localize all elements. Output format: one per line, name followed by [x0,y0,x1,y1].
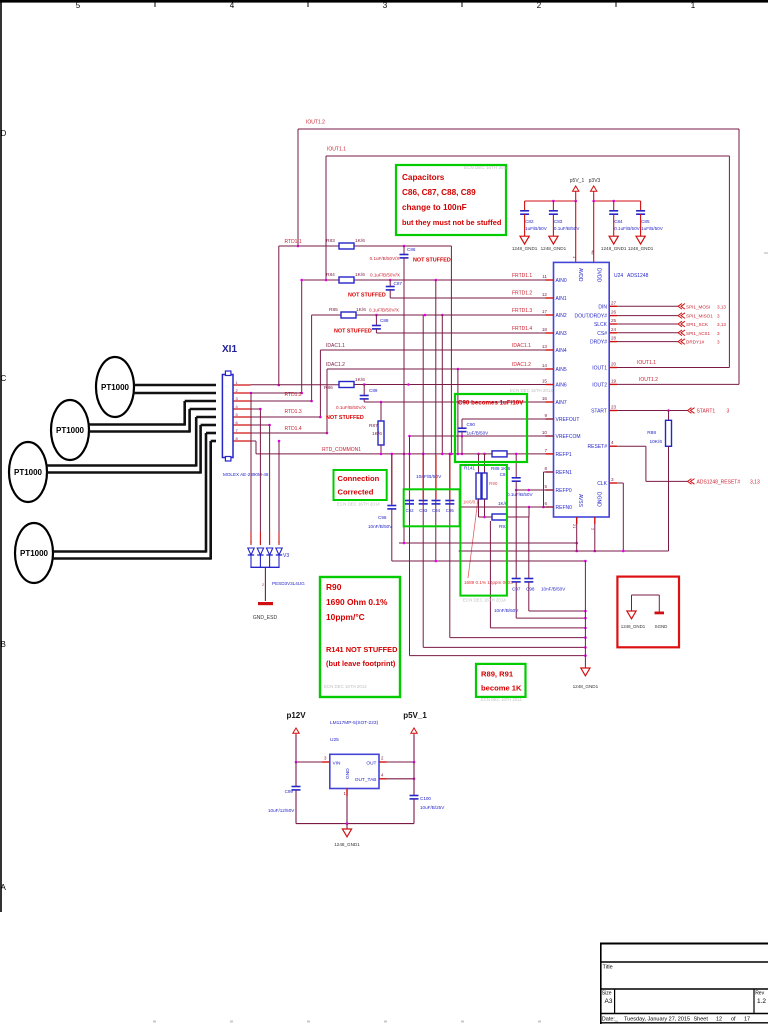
resistor R85 [329,307,399,318]
svg-text:1: 1 [344,791,347,796]
wire net IDAC1.1 [319,350,553,418]
svg-text:C84: C84 [614,219,623,224]
svg-text:25: 25 [611,318,617,323]
svg-text:NOT STUFFED: NOT STUFFED [326,415,364,421]
svg-text:1: 1 [278,540,280,544]
wire net DRDY1# [617,339,720,345]
wire net SPI1_nCS1 [617,330,720,336]
svg-text:R83: R83 [326,238,335,244]
wire net AIN6 row through R86 [251,383,554,386]
svg-text:C: C [1,374,7,383]
regulator pin 1 GND [344,789,348,824]
svg-text:START: START [591,409,607,415]
IC pin 25 SLCK [594,318,617,328]
svg-text:C100: C100 [420,796,431,801]
svg-text:DVDD: DVDD [596,268,602,283]
power p5V_1 top [570,178,585,201]
svg-text:ECN DEC 16TH 2014: ECN DEC 16TH 2014 [510,388,553,393]
svg-text:10: 10 [542,430,548,435]
svg-text:1689 0.1% 10ppm 0603: 1689 0.1% 10ppm 0603 [464,580,513,585]
svg-text:AIN7: AIN7 [556,400,567,406]
label R90 value red [463,499,479,578]
svg-text:10nF/B/50V: 10nF/B/50V [541,587,566,592]
svg-text:3,13: 3,13 [750,480,760,486]
svg-text:5: 5 [544,484,547,489]
svg-text:0.1uF/B/50V/X: 0.1uF/B/50V/X [370,256,400,261]
ground 1248_GND1 under C84 [601,236,627,251]
svg-text:10nF/B/50V: 10nF/B/50V [368,524,393,529]
svg-text:REFP1: REFP1 [556,452,572,458]
svg-text:1248_GND1: 1248_GND1 [628,246,654,251]
resistor R89 [477,451,510,471]
svg-text:GND: GND [345,768,351,779]
svg-text:ECN DEC 16TH 2014: ECN DEC 16TH 2014 [324,684,367,689]
svg-text:C83: C83 [554,219,563,224]
connector pin 8 [233,436,251,441]
svg-text:3: 3 [717,340,720,345]
wire verticals C92 C93 C95 [410,315,450,656]
svg-text:SPI1_nCS1: SPI1_nCS1 [686,331,710,336]
label AVDD pin [572,256,583,282]
capacitor C95 [445,501,454,514]
svg-text:DOUT/DRDY#: DOUT/DRDY# [574,314,607,320]
svg-text:IDAC1.2: IDAC1.2 [512,362,531,368]
svg-text:8: 8 [236,436,239,441]
wire net REFP0 row [516,489,553,492]
IC pin 19 IOUT2 [592,378,617,388]
ground 1248_GND1 under C83 [541,236,567,251]
wire net FRTD1.1 row [300,279,553,395]
wire net SPI1_SCK [617,321,726,327]
svg-text:0.1uF/B/50V: 0.1uF/B/50V [614,226,640,231]
wire vertical 460 to bus [459,507,461,551]
wire net VREFOUT row [462,418,554,420]
op-amp U1 : IC U24 ADS1248 body [554,262,610,517]
svg-text:C96: C96 [378,515,387,520]
IC pin 5 REFP0 [544,484,571,494]
svg-text:5: 5 [236,412,239,417]
svg-text:AIN0: AIN0 [556,278,567,284]
svg-text:C85: C85 [641,219,650,224]
wire net RTD1.2 row [251,392,302,394]
svg-text:R85: R85 [329,307,338,313]
svg-text:19: 19 [611,378,617,383]
svg-text:1: 1 [691,1,696,10]
capacitor C92 [405,501,414,514]
svg-text:1248_GND1: 1248_GND1 [573,684,599,689]
svg-text:Capacitors: Capacitors [402,173,445,182]
svg-text:V3: V3 [283,553,289,559]
IC pin 18 AIN3 [542,327,567,337]
ground GND_ESD [253,602,278,621]
svg-text:1248_GND1: 1248_GND1 [541,246,567,251]
wire R88 to bus [668,446,670,551]
sensor PT1000 #3 [9,442,47,502]
svg-text:PT1000: PT1000 [56,426,85,435]
wire net VREFCOM row [408,435,553,438]
svg-text:1K/6: 1K/6 [356,307,366,313]
svg-text:IOUT1: IOUT1 [592,366,607,372]
svg-text:14: 14 [542,363,548,368]
svg-text:DRDY1#: DRDY1# [686,340,705,345]
wire p3V3 rail [592,200,640,263]
connector XI1 body [222,371,233,461]
wire C90 branch down [461,436,463,454]
wire vertical from IDAC1.2 row [457,369,460,455]
svg-text:26: 26 [611,310,617,315]
svg-text:p5V_1: p5V_1 [403,711,427,720]
note box R90 tall [460,465,507,596]
capacitor C99 [268,762,301,824]
IC pin 12 AIN1 [542,292,567,302]
IC pin 3 CLK [597,477,617,487]
svg-text:OUT_TAB: OUT_TAB [355,777,377,783]
svg-text:3: 3 [324,756,327,761]
svg-text:A: A [1,883,7,892]
connector pin 5 [233,412,251,417]
svg-text:AIN4: AIN4 [556,348,567,354]
svg-text:10uF/B/25V: 10uF/B/25V [420,805,445,810]
wire net AIN7 row [364,401,553,404]
power p5V_1 bottom [403,711,427,762]
IC pin 14 AIN5 [542,363,567,373]
resistor R88 [647,411,671,447]
ground 1248_GND1 under C82 [512,236,538,251]
capacitor C83 [549,201,580,236]
svg-text:23: 23 [611,405,617,410]
IC pin 24 CS# [597,327,617,337]
ground 1248_GND1 bottom [573,668,599,689]
svg-text:RTD_COMMON1: RTD_COMMON1 [322,447,361,453]
svg-text:4: 4 [381,772,384,777]
svg-text:1: 1 [250,540,252,544]
wire stair y638 [450,636,587,639]
connector pin 6 [233,420,251,425]
svg-text:RESET#: RESET# [588,444,608,450]
svg-text:PT1000: PT1000 [101,383,130,392]
svg-text:1K/6: 1K/6 [355,377,365,383]
svg-text:SPI1_MOSI: SPI1_MOSI [686,304,710,309]
svg-text:NOT STUFFED: NOT STUFFED [334,329,372,335]
regulator pin 2 [379,756,415,764]
svg-text:6: 6 [236,420,239,425]
svg-text:3: 3 [383,1,388,10]
svg-text:but they must not be stuffed: but they must not be stuffed [402,218,502,227]
svg-text:5: 5 [76,1,81,10]
regulator pin 3 [295,756,330,764]
svg-text:IOUT1.1: IOUT1.1 [327,147,346,153]
wire vertical from R83 row [450,246,453,455]
connector pin 2 [233,388,251,393]
svg-text:C86: C86 [407,247,416,252]
connector pin 1 [233,380,251,385]
svg-text:1K/6: 1K/6 [355,238,365,244]
svg-text:R90: R90 [489,481,498,486]
svg-text:27: 27 [611,300,617,305]
svg-text:change to 100nF: change to 100nF [402,203,467,212]
svg-text:0.1uF/B/50V/X: 0.1uF/B/50V/X [370,273,400,278]
wire stair y656 [410,654,587,657]
label AVSS pin [572,494,583,529]
wire ground drop [584,561,586,668]
resistor R141 [476,454,481,499]
svg-text:1: 1 [269,540,271,544]
svg-text:IOUT2: IOUT2 [592,382,607,388]
svg-text:10ppm/°C: 10ppm/°C [326,612,365,622]
capacitor C82 [520,201,548,236]
svg-text:4: 4 [236,404,239,409]
wire net IDAC1.2 [326,368,554,435]
note box Capacitors C86-C89 [396,165,506,235]
wire net ADS1248_RESET# [617,446,760,485]
svg-text:U25: U25 [330,737,339,743]
svg-text:SPI1_MISO1: SPI1_MISO1 [686,314,713,319]
svg-text:DIN: DIN [598,304,607,310]
svg-text:0.1uF/B/50V: 0.1uF/B/50V [507,492,533,497]
svg-text:of: of [731,1017,736,1023]
svg-text:R84: R84 [326,272,335,278]
svg-text:become 1K: become 1K [481,684,522,693]
svg-text:1248_GND1: 1248_GND1 [621,624,646,629]
svg-text:VREFOUT: VREFOUT [556,417,580,423]
svg-text:6: 6 [544,501,547,506]
svg-text:IDAC1.1: IDAC1.1 [512,343,531,349]
svg-text:Sheet: Sheet [694,1017,709,1023]
capacitor C90 [458,419,490,436]
wire vertical from R85 row [441,315,444,455]
ground equivalence red box [617,577,679,648]
svg-text:Tuesday, January 27, 2015: Tuesday, January 27, 2015 [624,1017,690,1023]
wire net IOUT1.2 [298,129,739,384]
wire IOUT1 to IOUT1.1 [617,360,729,368]
wire ESD verticals from connector pins [250,392,281,545]
wire bus y561 to ground [392,560,587,563]
svg-text:C98: C98 [526,587,535,592]
svg-text:0.1uF/B/50V/X: 0.1uF/B/50V/X [336,405,366,410]
svg-text:START1: START1 [697,409,716,415]
svg-text:DGND: DGND [596,492,602,507]
svg-text:3: 3 [236,396,239,401]
svg-text:ECN DEC 16TH 2014: ECN DEC 16TH 2014 [337,502,380,507]
svg-text:AIN5: AIN5 [556,367,567,373]
svg-text:p5V_1: p5V_1 [570,178,585,184]
svg-text:11: 11 [542,274,547,279]
svg-text:1K/6: 1K/6 [355,272,365,278]
svg-text:R88: R88 [647,430,656,436]
connector pin 7 [233,428,251,433]
svg-text:VIN: VIN [333,761,342,767]
svg-text:R87: R87 [369,423,378,429]
svg-text:REFP0: REFP0 [556,488,572,494]
sensor PT1000 #2 [51,400,89,460]
svg-text:10uF/12/50V: 10uF/12/50V [268,808,295,813]
svg-text:2: 2 [381,756,384,761]
svg-text:R86: R86 [324,385,333,391]
ground 1248_GND1 in red box [621,595,660,629]
svg-text:Corrected: Corrected [338,488,374,497]
ruler ticks bottom [153,1021,618,1023]
wire stair y611 [529,610,587,613]
svg-text:AIN3: AIN3 [556,331,567,337]
wire stair y647 [423,646,587,649]
wire DGND pin vertical [594,517,597,552]
ground SGND in red box [655,595,668,629]
wire p5V_1 rail [525,200,577,263]
wire bus AVSS y543 [399,258,578,544]
svg-text:SGND: SGND [655,624,668,629]
svg-text:DRDY#: DRDY# [590,340,607,346]
wire sensor1 pair to connector [134,385,216,393]
svg-text:Title: Title [603,965,613,971]
wire sensor4 pair with vertical jogs [53,433,216,560]
svg-text:AVDD: AVDD [577,268,583,282]
wire bus main y551 [459,550,669,553]
svg-text:SPI1_SCK: SPI1_SCK [686,322,709,327]
svg-text:A3: A3 [605,998,613,1005]
svg-text:1K/6/0.1: 1K/6/0.1 [463,500,479,505]
IC pin 23 START [591,405,617,415]
svg-text:IOUT1.2: IOUT1.2 [306,120,325,126]
capacitor C89 [360,385,378,403]
note box Connection Corrected [334,470,387,500]
svg-text:PESD3V3L4UG: PESD3V3L4UG [272,581,305,586]
IC pin 28 DRDY# [590,336,617,346]
svg-text:8: 8 [544,466,547,471]
svg-text:REFN1: REFN1 [556,470,573,476]
svg-text:C87: C87 [394,281,403,286]
svg-text:48: 48 [591,250,596,255]
wire sensor2 pair with vertical jogs [89,401,216,433]
wire vertical C94 net [435,280,437,561]
svg-text:24: 24 [611,327,617,332]
svg-text:1.2: 1.2 [757,998,766,1005]
svg-text:IOUT1.2: IOUT1.2 [639,377,658,383]
IC pin 7 REFP1 [544,448,571,458]
svg-text:AVSS: AVSS [577,494,583,508]
svg-text:1K/6: 1K/6 [372,431,382,437]
resistor R86 [324,377,365,391]
svg-text:C82: C82 [525,219,534,224]
svg-text:C90 becomes 1uF/10V: C90 becomes 1uF/10V [458,400,524,407]
ground 1248_GND1 under C85 [628,236,654,251]
svg-text:C86, C87, C88, C89: C86, C87, C88, C89 [402,188,476,197]
svg-text:p12V: p12V [286,711,306,720]
svg-text:FRTD1.4: FRTD1.4 [512,326,532,332]
note box R89 R91 become 1K [476,664,526,702]
wire net START1 [617,408,730,415]
svg-text:3,13: 3,13 [717,322,726,327]
svg-text:1uF/B/50V: 1uF/B/50V [467,431,490,436]
svg-text:1uF/B/50V: 1uF/B/50V [641,226,664,231]
svg-text:AIN2: AIN2 [556,313,567,319]
capacitor C93 [419,501,428,514]
svg-text:FRTD1.2: FRTD1.2 [512,291,532,297]
svg-text:2: 2 [262,583,264,587]
resistor R90 [482,454,498,499]
svg-text:SLCK: SLCK [594,322,608,328]
svg-text:NOT STUFFED: NOT STUFFED [413,258,451,264]
svg-text:R141 NOT STUFFED: R141 NOT STUFFED [326,645,398,654]
resistor R84 [326,272,400,283]
svg-text:3: 3 [611,477,614,482]
wire stair y628 [490,521,586,629]
svg-text:Connection: Connection [338,474,380,483]
wire net REFN1 row [542,472,553,508]
border left line [0,2,2,912]
svg-text:28: 28 [611,336,617,341]
svg-text:LM117MP-5(SOT-223): LM117MP-5(SOT-223) [330,720,379,726]
svg-text:GND_ESD: GND_ESD [253,615,278,621]
regulator U25 body [330,754,379,788]
resistor R87 [369,402,384,454]
svg-text:C99: C99 [285,789,294,794]
capacitor C94 [432,501,441,514]
wire net FRTD1.2 row [390,290,553,298]
svg-text:2: 2 [236,388,239,393]
svg-text:10K/6: 10K/6 [649,439,662,445]
svg-text:ADS1248_RESET#: ADS1248_RESET# [697,480,741,486]
svg-text:MOLEX AE-2390M-48: MOLEX AE-2390M-48 [223,472,269,477]
IC pin 27 DIN [598,300,617,310]
wire net RTD1.3 row [251,401,312,409]
svg-text:R89, R91: R89, R91 [481,670,514,679]
ground 1248_GND1 regulator [334,824,360,847]
svg-text:20: 20 [611,362,617,367]
svg-text:0.1uF/B/50V: 0.1uF/B/50V [554,226,580,231]
svg-text:Size: Size [602,991,612,997]
wire net RTD_COMMON1 [251,441,554,455]
svg-text:1248_GND1: 1248_GND1 [334,842,360,847]
IC pin 26 DOUT/DRDY# [574,310,617,320]
IC pin 20 IOUT1 [592,362,617,372]
svg-text:4: 4 [230,1,235,10]
IC pin 15 AIN6 [542,379,567,389]
capacitor C87 [386,280,403,290]
capacitor C100 [410,762,446,824]
svg-text:FRTD1.3: FRTD1.3 [512,308,532,314]
ruler ticks top [155,0,616,7]
regulator pin 4 [379,772,415,780]
svg-text:3: 3 [717,331,720,336]
IC pin 4 RESET# [588,440,617,450]
power p12V [286,711,306,762]
svg-text:IOUT1.1: IOUT1.1 [637,360,656,366]
sensor PT1000 #4 [15,523,53,583]
svg-text:RTD1.3: RTD1.3 [285,409,302,415]
svg-text:ECN DEC 16TH 2014: ECN DEC 16TH 2014 [481,697,522,702]
svg-text:(but leave footprint): (but leave footprint) [326,659,396,668]
svg-text:C88: C88 [380,318,389,323]
capacitor C91 [500,453,534,497]
svg-text:1248_GND1: 1248_GND1 [601,246,627,251]
svg-text:1uF/B/50V: 1uF/B/50V [525,226,548,231]
svg-text:Rev: Rev [755,991,764,997]
svg-text:1: 1 [259,540,261,544]
IC pin 11 AIN0 [542,274,567,284]
svg-text:R90: R90 [326,582,342,592]
capacitor C96 [368,454,396,561]
svg-text:9: 9 [544,413,547,418]
svg-text:p3V3: p3V3 [589,178,601,184]
note box R90 1690 Ohm [320,577,400,697]
power p3V3 top [589,178,601,201]
svg-text:NOT STUFFED: NOT STUFFED [348,293,386,299]
svg-text:0.1uF/B/50V/X: 0.1uF/B/50V/X [369,308,399,313]
wire net FRTD1.4 row [376,329,553,333]
svg-text:RTD1.4: RTD1.4 [285,426,302,432]
wire net RTD1.1 row [278,245,452,387]
svg-text:B: B [1,640,6,649]
